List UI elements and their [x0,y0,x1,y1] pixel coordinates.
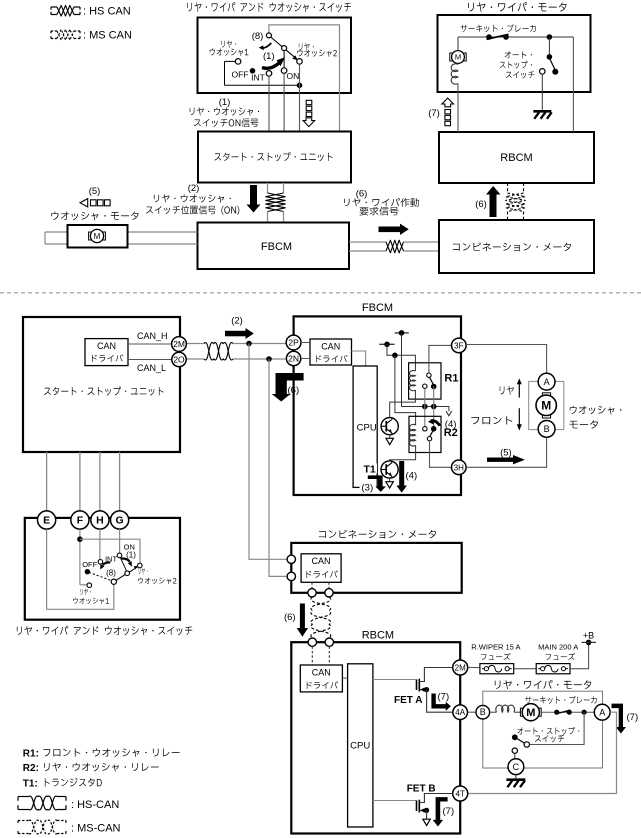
svg-text:T1:: T1: [23,778,38,789]
svg-text:(6): (6) [284,612,296,623]
svg-text:(1): (1) [126,550,136,559]
svg-text:CAN_H: CAN_H [137,331,168,341]
svg-text:CAN: CAN [311,556,330,566]
svg-text:(7): (7) [438,691,450,702]
svg-text:FBCM: FBCM [261,241,292,253]
svg-text:(8): (8) [252,31,264,42]
svg-text:RBCM: RBCM [362,630,394,642]
svg-text:R1:: R1: [23,748,39,759]
svg-text:M: M [526,707,535,719]
svg-text:(2): (2) [231,315,243,326]
svg-text:3F: 3F [454,341,463,350]
svg-text:T1: T1 [364,463,376,475]
svg-text:R2: R2 [444,427,458,439]
svg-text:(5): (5) [89,186,101,197]
svg-text:(5): (5) [500,448,512,459]
svg-text:R2:: R2: [23,763,39,774]
svg-text:(7): (7) [428,108,440,119]
svg-text:2P: 2P [288,338,299,348]
svg-text:B: B [480,707,486,717]
svg-text:(1): (1) [263,51,275,62]
svg-text:4T: 4T [456,790,465,799]
svg-text:R1: R1 [444,373,458,385]
svg-text:3H: 3H [454,463,464,472]
svg-text:(4): (4) [406,471,418,482]
svg-text:FBCM: FBCM [362,302,393,314]
svg-text:CAN: CAN [321,341,340,351]
svg-text:: MS CAN: : MS CAN [83,30,132,42]
svg-text:CAN_L: CAN_L [137,363,166,373]
svg-text:OFF: OFF [232,69,249,79]
svg-text:CPU: CPU [357,422,377,433]
svg-text:G: G [116,515,124,527]
svg-text:(2): (2) [188,183,200,194]
svg-text:(7): (7) [443,806,455,817]
svg-text:M: M [94,232,101,241]
svg-text:(6): (6) [356,188,368,199]
svg-text:A: A [599,708,605,718]
svg-text:E: E [43,515,50,527]
svg-text:RBCM: RBCM [500,152,532,164]
svg-text:M: M [455,53,461,62]
svg-text:A: A [544,377,550,387]
svg-text:(8): (8) [106,568,116,577]
svg-text:F: F [77,515,84,527]
svg-text:B: B [544,424,550,434]
svg-text:4A: 4A [455,708,465,717]
svg-text:2N: 2N [288,354,299,364]
svg-text:(6): (6) [475,199,487,210]
svg-text:: MS-CAN: : MS-CAN [71,822,121,834]
svg-text:FET A: FET A [394,695,423,706]
svg-text:INT: INT [251,73,265,83]
svg-text:H: H [96,515,104,527]
svg-text:(3): (3) [362,482,374,493]
svg-text:2O: 2O [173,355,185,365]
svg-text:R.WIPER 15 A: R.WIPER 15 A [471,642,520,651]
svg-text:2M: 2M [173,339,185,349]
svg-text:CPU: CPU [350,740,370,751]
svg-text:(1): (1) [219,97,231,108]
svg-text:OFF: OFF [82,560,97,569]
svg-text:CAN: CAN [97,341,116,351]
svg-text:: HS CAN: : HS CAN [83,6,131,18]
svg-text:C: C [513,762,520,772]
svg-text:(7): (7) [627,712,639,723]
svg-text:MAIN 200 A: MAIN 200 A [538,642,578,651]
svg-text:M: M [541,399,551,413]
svg-text:ON: ON [287,71,300,81]
svg-text:CAN: CAN [312,668,331,678]
svg-text:: HS-CAN: : HS-CAN [71,799,119,811]
svg-text:+B: +B [583,631,594,641]
svg-text:2M: 2M [455,664,466,673]
